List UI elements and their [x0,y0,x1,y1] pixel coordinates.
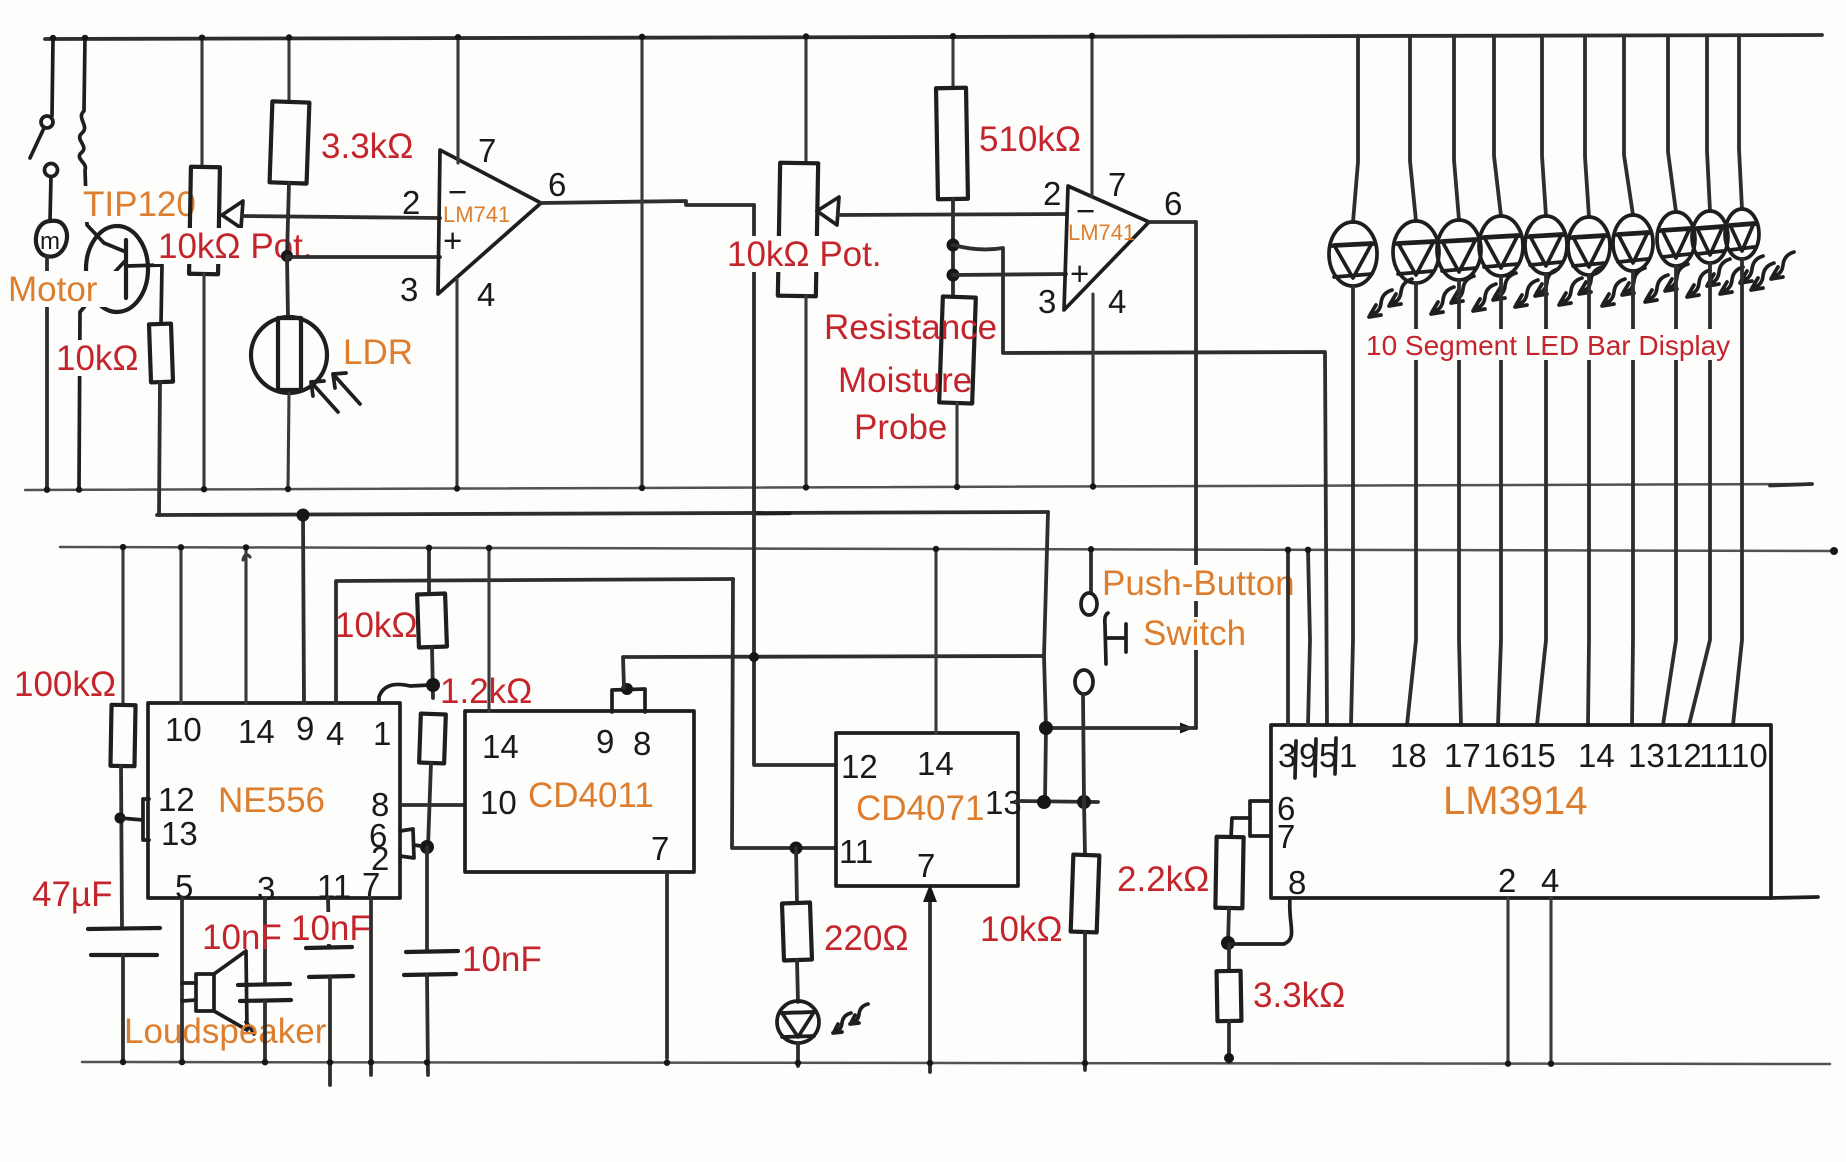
resistor R5 100k [110,705,135,766]
wire top rail to R4 [951,39,954,88]
capacitor C4 10nF [404,951,458,975]
resistor R4 510k [936,88,968,200]
wire node A to LDR [287,256,288,318]
svg-text:14: 14 [482,728,519,765]
wire upper ground rail [25,484,1812,490]
resistor R11 3.3k [1227,944,1231,971]
op-amp U2 LM741 [1064,186,1149,310]
svg-text:47µF: 47µF [32,875,112,914]
LED D8 [1657,212,1695,266]
wire probe to ground rail [955,403,958,488]
capacitor C1 47uF [88,928,160,955]
node C junction [947,269,960,282]
svg-text:m: m [40,228,60,255]
capacitor C2 10nF [238,984,291,1001]
wire pot2 wiper to op-amp U2 pin2 [838,214,1066,215]
wire R11 to ground rail [1227,1021,1231,1062]
resistor R1 10k (base) [149,324,173,383]
wire R4 to probe node [951,199,955,297]
wire V+ rail to R5 [121,547,124,705]
wire pot1 to ground rail [202,274,205,489]
LED D11 [777,1001,819,1043]
U3 pins 6/2 bracket [400,829,421,858]
LED D7 [1613,215,1653,271]
svg-text:9: 9 [596,723,614,760]
LED D7 light arrows [1645,275,1668,302]
LED D8 light arrows [1687,270,1710,297]
label 10k pot1 [154,228,314,264]
wire R2 to node A [287,183,289,256]
svg-text:3.3kΩ: 3.3kΩ [1253,976,1345,1015]
LDR arrows [311,381,338,412]
IC U3 NE556 [148,703,400,898]
moisture probe P1 [939,296,976,403]
svg-text:7: 7 [478,132,496,169]
svg-text:TIP120: TIP120 [83,185,196,224]
svg-text:10nF: 10nF [202,918,282,957]
node H junction (U1 out / CD4011 out) [749,652,759,662]
wire U3 pin3 to C2 [263,898,267,984]
LED D1 cathode wire to LM3914 [1351,286,1353,725]
LED D5 cathode wire to LM3914 [1537,274,1546,725]
wire node F to C4 [425,847,429,951]
svg-text:+: + [1070,255,1089,292]
svg-text:−: − [1076,192,1095,229]
svg-text:LDR: LDR [343,333,413,372]
svg-text:10: 10 [1731,737,1768,774]
svg-text:LM3914: LM3914 [1443,779,1588,823]
IC U5 CD4071 [836,733,1018,886]
node B junction [947,239,960,252]
junction blobs top rail [50,35,56,41]
svg-text:10: 10 [165,711,202,748]
wire LDR to ground rail [288,393,289,489]
svg-text:10kΩ: 10kΩ [335,606,418,645]
svg-text:10kΩ: 10kΩ [980,910,1063,949]
wire U1 output [541,201,754,205]
svg-text:11: 11 [317,868,351,905]
wire U5 pin14 to V+ rail [934,549,937,733]
svg-text:−: − [448,173,467,210]
LED D3 [1437,220,1481,280]
svg-text:7: 7 [1277,818,1295,855]
pin separators 3|9|5|1 [1295,738,1336,778]
svg-text:1: 1 [373,715,391,752]
svg-text:Resistance: Resistance [824,308,997,347]
U2 pin4 wire [1091,294,1094,488]
wire collector squiggle from top rail [79,37,104,243]
svg-text:4: 4 [1108,283,1126,320]
junction blobs lower V+ rail [120,544,126,550]
wire R1 to latch rail [159,382,160,515]
LED D2 [1393,221,1439,283]
wire C3 to ground rail [328,977,332,1085]
switch SW1 [52,39,53,116]
label TIP120 [78,186,196,222]
pot2 wiper arrow [817,197,839,225]
transistor Q1 TIP120 [86,226,148,312]
svg-text:11: 11 [839,833,873,870]
svg-text:2.2kΩ: 2.2kΩ [1117,860,1209,899]
svg-text:Switch: Switch [1143,614,1246,653]
LED D10 anode wire [1739,36,1742,209]
U6 pins 6/7 bracket [1250,801,1271,836]
junction blobs upper ground rail [44,487,50,493]
push-button switch SW2 [1089,548,1093,593]
potentiometer VR1 10k [189,167,220,274]
resistor R6 10k [417,594,447,648]
wire U2 output down [1194,222,1198,728]
wire latch vertical down to junction [1044,512,1048,802]
wire R9 to ground rail [1083,932,1087,1070]
svg-text:16: 16 [1483,737,1520,774]
wire R7 down to node F [428,763,431,847]
wire SW2 to latch net / R9 [1083,694,1084,802]
svg-text:12: 12 [841,748,878,785]
wire motor to ground rail [45,256,49,489]
wire top rail to pot2 [804,39,807,163]
LED D1 light arrows [1369,290,1392,317]
resistor R10 2.2k [1215,837,1243,908]
svg-text:10nF: 10nF [291,909,371,948]
wire R10 to node M [1228,908,1229,944]
LED D3 light arrows [1473,284,1496,311]
svg-text:4: 4 [326,715,344,752]
label 10k base [52,340,144,376]
wire U3 pin5 to ground rail [180,898,184,1062]
svg-text:Push-Button: Push-Button [1102,564,1295,603]
wire node A to op-amp U1 pin3 [287,255,440,259]
wire U3 pin4 up and over [336,579,733,703]
wire U3 pin7 to ground rail [369,898,373,1075]
svg-text:CD4071: CD4071 [856,789,984,828]
wire C1 to ground rail [121,955,125,1062]
node J junction (220R branch) [790,842,803,855]
svg-text:10kΩ: 10kΩ [56,339,139,378]
motor M1 [50,177,51,221]
wire lower V+ rail [60,547,1834,551]
LED D6 [1568,217,1610,275]
wire U5 pin7 to ground rail (arrow) [928,890,932,1072]
wire U1 output down to CD4071 pin12 [754,205,836,765]
svg-text:2: 2 [1498,862,1516,899]
wire U3 pin11 to C3 [328,898,329,947]
wire U3 pin8 to CD4011 pin10 [400,803,464,807]
label 10nF C3 [288,912,372,944]
LED D9 [1692,211,1728,263]
wire V+ rail to R6 [427,549,431,594]
svg-text:12: 12 [158,781,195,818]
LED D8 cathode wire to LM3914 [1663,266,1676,725]
LED D8 anode wire [1668,36,1676,212]
wire U3 pin14 to V+ rail [243,549,250,703]
svg-text:12: 12 [1665,737,1702,774]
node F junction [420,840,434,854]
wire top rail to R2 [287,39,290,102]
LED D2 cathode wire to LM3914 [1407,283,1416,725]
LED D6 light arrows [1602,279,1625,306]
node D junction (pins 12/13) [115,813,126,824]
wire U6 pin4 to ground rail [1549,898,1552,1063]
svg-text:18: 18 [1390,737,1427,774]
LED D9 anode wire [1707,36,1710,211]
svg-text:2: 2 [1043,175,1061,212]
svg-text:6: 6 [548,166,566,203]
wire U4 pin7 to ground rail [665,872,669,1058]
wire node B to LM3914 pin5 signal [953,245,1327,725]
svg-text:100kΩ: 100kΩ [14,665,116,704]
wire node J to R8 [796,848,797,903]
label Motor [5,271,118,307]
LED D3 cathode wire to LM3914 [1459,280,1461,725]
wire down to CD4071 pin11 [732,579,836,848]
capacitor C3 10nF [306,947,353,977]
wire node D to NE556 pins 12/13 bracket [120,799,149,840]
wire C4 to ground rail [427,975,428,1075]
svg-text:1: 1 [1339,737,1357,774]
svg-text:8: 8 [633,725,651,762]
svg-text:8: 8 [1288,864,1306,901]
wire node C to U2 pin3 [953,274,1066,275]
svg-text:4: 4 [477,276,495,313]
label 10 Segment LED Bar Display [1362,329,1718,360]
svg-text:10 Segment LED Bar Display: 10 Segment LED Bar Display [1366,330,1730,361]
wire R8 to LED D11 [797,960,798,1002]
LED D9 cathode wire to LM3914 [1689,263,1710,725]
svg-text:+: + [443,222,462,259]
wire top rail to pot1 [200,39,203,167]
label Push-Button Switch [1101,565,1297,601]
svg-text:14: 14 [1578,737,1615,774]
svg-text:Probe: Probe [854,408,947,447]
node M junction [1221,936,1235,950]
wire R6 to node E [432,647,433,698]
svg-text:14: 14 [238,713,275,750]
svg-text:4: 4 [1541,862,1559,899]
wire U2 output to latch node [1180,723,1194,734]
svg-text:5: 5 [175,868,193,905]
LED D5 light arrows [1559,278,1582,305]
LDR R3 [251,317,327,393]
LED D1 [1329,222,1377,286]
wire bottom ground rail [82,1062,1830,1064]
svg-text:13: 13 [161,815,198,852]
svg-text:Loudspeaker: Loudspeaker [124,1012,327,1051]
LED D5 [1525,216,1567,274]
wire U5 pin13 to latch net [1018,801,1098,802]
svg-text:7: 7 [917,847,935,884]
LED D6 anode wire [1585,36,1589,217]
node E junction [426,678,440,692]
loudspeaker LS1 [182,983,196,1001]
LED D6 cathode wire to LM3914 [1588,275,1589,725]
LED D2 anode wire [1410,36,1416,221]
wire U4 pin14 to V+ rail [487,549,490,711]
LED D9 light arrows [1720,267,1743,294]
wire U6 pin2 to ground rail [1506,898,1509,1063]
svg-text:13: 13 [985,784,1022,821]
wire latch rail overdraw [757,511,790,515]
LED D10 light arrows [1751,263,1774,290]
junction blobs bottom rail [120,1059,126,1065]
wire vertical supply mid [640,39,643,489]
LED D7 cathode wire to LM3914 [1632,271,1633,725]
resistor R8 220 [782,903,812,961]
LED D5 anode wire [1542,36,1546,216]
svg-text:15: 15 [1519,737,1556,774]
svg-text:220Ω: 220Ω [824,919,909,958]
wire top supply rail [45,35,1822,39]
svg-text:11: 11 [1699,737,1733,774]
resistor R9 10k [1071,855,1100,933]
wire pot1 wiper to op-amp U1 pin2 [242,216,440,218]
wire U3 pin9 to latch rail [303,515,304,703]
op-amp U1 LM741 [438,150,541,294]
wire U6 pin3 to V+ rail [1286,550,1290,725]
LED D4 anode wire [1494,36,1501,216]
potentiometer VR2 10k [778,163,818,297]
svg-text:10: 10 [480,784,517,821]
node A junction [281,250,293,262]
wire R5 to 47uF [121,766,122,928]
IC U6 LM3914 [1271,725,1771,898]
LED D4 light arrows [1515,280,1538,307]
svg-text:3.3kΩ: 3.3kΩ [321,127,413,166]
LED D7 anode wire [1624,36,1633,215]
LED D1 anode wire [1353,36,1358,222]
LED D10 [1725,209,1759,259]
node I junction [1039,721,1053,735]
svg-text:9: 9 [296,710,314,747]
resistor R2 3.3k [270,101,310,183]
wire U3 pin10 to V+ rail [179,548,182,703]
svg-text:3: 3 [1038,283,1056,320]
wire pot2 to ground rail [804,296,807,489]
LED D11 light arrows [833,1013,851,1033]
svg-text:NE556: NE556 [218,781,325,820]
wire U3 pin1 to R6/R7 node [379,684,430,703]
node K junction [1037,795,1051,809]
LED D10 cathode wire to LM3914 [1733,259,1742,725]
svg-text:3: 3 [400,271,418,308]
node L junction [1077,795,1091,809]
wire node L to R9 [1084,802,1085,855]
node G junction [621,683,633,695]
LED D3 anode wire [1454,36,1459,220]
U1 pin4 wire [455,279,458,489]
pot1 wiper arrow [222,201,243,228]
svg-text:17: 17 [1444,737,1481,774]
wire C2 to ground rail [263,1001,267,1062]
wire latch net rail (10k base / NE556 pin9 / CD4071 pin13) [157,512,1048,515]
svg-text:2: 2 [402,184,420,221]
svg-text:6: 6 [1164,185,1182,222]
U1 pin7 wire [456,39,459,163]
svg-text:14: 14 [917,745,954,782]
svg-text:7: 7 [651,830,669,867]
LED D2 light arrows [1431,287,1454,314]
wire base tap [126,265,162,324]
U4 pins 9/8 bracket [612,689,645,712]
wire U6 pin8 to node M [1229,898,1292,944]
svg-text:Motor: Motor [8,270,98,309]
wire node G up and over to latch vertical [623,656,1044,688]
svg-text:510kΩ: 510kΩ [979,120,1081,159]
svg-text:10kΩ Pot.: 10kΩ Pot. [727,235,882,274]
U2 pin7 wire [1090,37,1093,196]
wire U6 pin9 to V+ rail [1308,550,1310,725]
wire bracket to R10 [1231,818,1250,837]
svg-text:Moisture: Moisture [838,361,972,400]
LED D4 [1479,216,1523,276]
svg-text:10nF: 10nF [462,940,542,979]
label 10k pot2 [723,236,887,272]
IC U4 CD4011 [465,711,694,872]
LED D4 cathode wire to LM3914 [1498,276,1501,725]
svg-text:13: 13 [1628,737,1665,774]
wire LED D11 to ground rail [796,1043,800,1066]
svg-text:CD4011: CD4011 [528,776,654,815]
svg-text:1.2kΩ: 1.2kΩ [440,672,532,711]
svg-text:7: 7 [1108,166,1126,203]
resistor R7 1.2k [419,714,446,764]
wire U2 output [1149,220,1196,224]
